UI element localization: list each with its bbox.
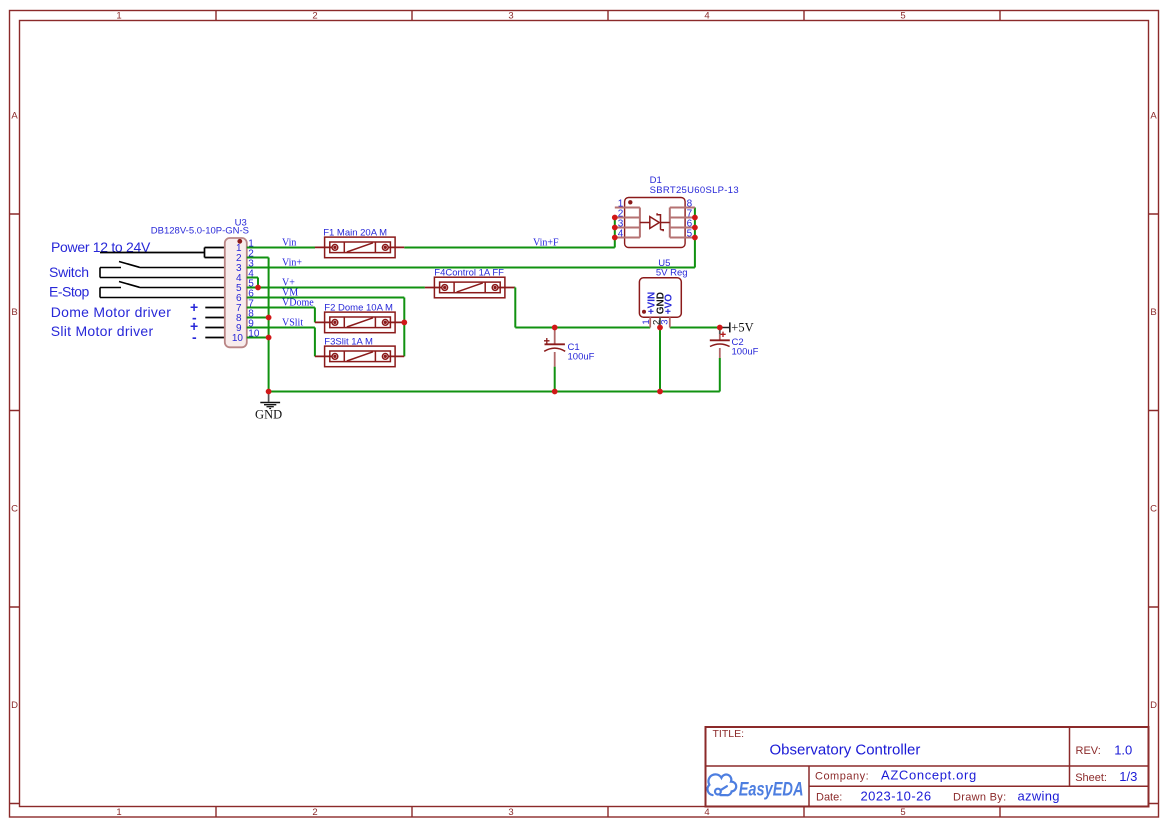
U3 outside pin numbers [248,238,260,339]
+5V flag [720,320,754,334]
switch (E-Stop) pins 5-6 [100,282,225,298]
wire F4 to U5 VIN [514,288,650,328]
svg-text:Slit Motor driver: Slit Motor driver [51,323,154,339]
SCHEMATIC [49,175,759,421]
fuse F3 [315,346,404,367]
fuse F4 [425,277,515,298]
svg-text:Sheet:: Sheet: [1075,772,1107,784]
wire pin10 stub [247,337,269,339]
junction dots [255,215,723,395]
svg-text:+5V: +5V [731,320,753,334]
svg-text:1.0: 1.0 [1114,742,1132,757]
svg-text:Dome Motor driver: Dome Motor driver [51,304,171,320]
svg-text:100uF: 100uF [732,347,759,358]
wire C1 bottom [554,367,556,392]
capacitor C2 [710,328,759,359]
svg-text:4: 4 [618,228,624,239]
svg-text:Vin+: Vin+ [282,257,302,268]
svg-text:4: 4 [704,807,709,818]
svg-text:GND: GND [255,407,282,421]
svg-text:1: 1 [641,319,652,324]
wire VM pin6 to F2/F3 [247,298,404,357]
svg-text:Observatory Controller: Observatory Controller [770,741,921,758]
diode D1 [615,175,739,247]
regulator U5 [639,258,687,327]
svg-text:Date:: Date: [816,791,842,803]
net label Vin [282,237,559,328]
svg-text:Switch: Switch [49,264,89,280]
svg-text:Vin+F: Vin+F [533,237,559,248]
svg-text:B: B [1150,307,1156,318]
wire pin8 stub [247,317,269,319]
svg-text:C: C [11,504,18,515]
TITLEBLOCK [706,727,1149,807]
svg-text:VDome: VDome [282,297,314,308]
wire ground bus bottom [269,391,720,393]
svg-text:4: 4 [704,11,709,22]
wire pin4 to pin5 [247,278,258,288]
svg-text:+VO: +VO [664,294,675,315]
svg-text:3: 3 [508,11,513,22]
svg-text:1/3: 1/3 [1119,769,1137,784]
svg-text:2: 2 [312,11,317,22]
wire V+ pin5 to F4 [247,287,425,289]
switch (Switch) pins 3-4 [100,262,225,278]
svg-text:2023-10-26: 2023-10-26 [861,789,932,804]
wire VSlit pin9 to F3 [247,328,315,357]
U3 pin1 dot [237,239,242,244]
svg-text:5: 5 [900,11,905,22]
svg-text:D: D [11,700,18,711]
svg-text:100uF: 100uF [568,352,595,363]
wire U5 GND down [659,328,661,392]
svg-text:Vin: Vin [282,237,296,248]
svg-text:1: 1 [116,11,121,22]
label Power 12 to 24V [49,239,171,339]
svg-text:F2 Dome 10A M: F2 Dome 10A M [324,303,393,314]
svg-text:5: 5 [900,807,905,818]
svg-text:A: A [1150,111,1157,122]
svg-text:3: 3 [659,320,670,325]
svg-text:VSlit: VSlit [282,317,303,328]
U3 inside pin numbers [232,243,244,344]
wire C2 bottom [719,358,721,392]
svg-text:REV:: REV: [1076,745,1101,757]
svg-text:1: 1 [116,807,121,818]
svg-text:C: C [1150,504,1157,515]
svg-text:-: - [192,329,197,345]
wires dome/slit motor stubs pins 7-10 [205,308,225,338]
svg-text:5: 5 [687,228,693,239]
fuse F1 [315,237,404,258]
wire Vin+F F1 to D1 [404,218,615,248]
wire pin2 to GND rail [247,257,269,259]
wire VDome pin7 to F2 [247,308,315,323]
svg-text:SBRT25U60SLP-13: SBRT25U60SLP-13 [650,185,739,196]
wire U5 VO to +5V [670,327,720,329]
connector U3 body [225,238,247,347]
polarity marks dome/slit motor [190,299,198,345]
svg-text:B: B [11,307,17,318]
svg-text:Company:: Company: [815,770,869,782]
svg-text:TITLE:: TITLE: [713,728,745,740]
EasyEDA logo [708,774,737,795]
fuse F2 [315,312,404,333]
svg-text:DB128V-5.0-10P-GN-S: DB128V-5.0-10P-GN-S [151,226,249,237]
svg-text:F3Slit 1A M: F3Slit 1A M [324,337,373,348]
wire Vin+ pin3 to D1 right [247,208,695,268]
svg-text:3: 3 [508,807,513,818]
wire GND vertical rail [268,258,270,392]
svg-text:A: A [11,111,18,122]
svg-text:F1 Main 20A M: F1 Main 20A M [323,228,387,239]
svg-text:E-Stop: E-Stop [49,284,90,300]
svg-text:2: 2 [312,807,317,818]
wire power to pins 1,2 [100,248,225,258]
svg-text:AZConcept.org: AZConcept.org [881,768,977,783]
svg-text:10: 10 [232,333,244,344]
ground symbol [255,394,282,421]
wire Vin pin1 to F1 [247,247,315,249]
svg-text:Drawn By:: Drawn By: [953,791,1006,803]
capacitor C1 [544,328,595,367]
svg-text:EasyEDA: EasyEDA [739,779,804,800]
svg-text:D: D [1150,700,1157,711]
svg-text:F4Control 1A FF: F4Control 1A FF [434,268,504,279]
U3 labels [151,217,249,236]
green wires [247,208,720,392]
svg-text:azwing: azwing [1018,789,1060,804]
svg-text:5V Reg: 5V Reg [656,267,688,278]
